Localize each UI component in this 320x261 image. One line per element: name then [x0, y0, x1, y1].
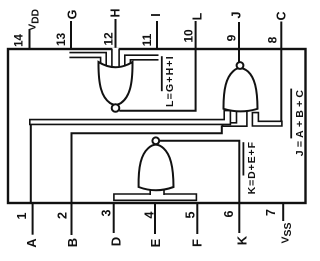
wire net B: pin2 up and across to gate J middle input: [72, 126, 222, 204]
svg-text:11: 11: [140, 33, 154, 46]
pin 11 lead: [156, 21, 158, 49]
svg-text:D: D: [109, 237, 124, 246]
NOR gate U3 (J = A+B+C), pointing up: [223, 68, 257, 111]
svg-text:6: 6: [222, 210, 236, 217]
svg-text:J=A+B+C: J=A+B+C: [294, 87, 306, 156]
svg-text:B: B: [65, 238, 80, 247]
pin 3 lead: [113, 203, 115, 233]
wire gate U1 output to pin 10: [119, 49, 195, 111]
svg-text:J: J: [230, 11, 244, 18]
gate U2 output bubble: [152, 137, 159, 144]
gate U1 output bubble: [112, 104, 120, 112]
gate U3 output bubble: [237, 62, 244, 69]
svg-text:12: 12: [102, 32, 116, 46]
pin 1 lead: [32, 203, 34, 235]
svg-text:I: I: [149, 13, 163, 16]
svg-text:H: H: [109, 8, 123, 17]
svg-text:10: 10: [182, 29, 196, 43]
package outline: [8, 49, 306, 203]
pin 8 lead: [280, 22, 282, 50]
svg-text:VDD: VDD: [27, 9, 42, 31]
overline for J expression: [290, 89, 292, 139]
pin 14 lead: [29, 30, 31, 49]
svg-text:C: C: [275, 11, 289, 20]
pin 6 lead: [238, 203, 240, 233]
svg-text:F: F: [190, 239, 205, 247]
pin 10 lead: [195, 21, 197, 49]
svg-text:K: K: [235, 235, 250, 245]
pin 9 lead and wire to gate J output: [238, 22, 240, 63]
svg-text:1: 1: [15, 212, 29, 219]
svg-text:14: 14: [14, 34, 26, 47]
pin 5 lead: [196, 203, 198, 234]
svg-text:A: A: [24, 238, 39, 248]
svg-text:E: E: [148, 238, 163, 247]
wire net A: pin1 up and across to gate J: [30, 122, 32, 203]
gate K input bus from pins 3,4,5: [114, 194, 196, 200]
svg-text:3: 3: [100, 209, 114, 216]
overline for L expression: [161, 56, 163, 91]
pin 12 lead: [115, 19, 117, 49]
svg-text:2: 2: [56, 212, 70, 219]
pin 2 lead: [71, 203, 73, 235]
pin 7 lead: [282, 203, 284, 221]
svg-text:VSS: VSS: [280, 222, 295, 243]
svg-text:8: 8: [266, 36, 280, 43]
gate L input stub from pin 13 (G): [69, 53, 106, 70]
svg-text:7: 7: [264, 209, 278, 216]
svg-text:L: L: [191, 12, 205, 20]
svg-text:13: 13: [54, 33, 68, 47]
svg-text:G: G: [66, 10, 80, 20]
svg-text:K=D+E+F: K=D+E+F: [246, 141, 258, 194]
wire net C: pin8 down and left to gate J right input: [280, 49, 282, 121]
wire gate U2 output to pin 6: [159, 141, 239, 203]
gate K middle input stub: [150, 184, 164, 200]
pin 4 lead: [154, 203, 156, 234]
overline for K expression: [242, 142, 244, 175]
svg-text:L=G+H+I: L=G+H+I: [164, 55, 176, 107]
NOR gate U1 (L = G+H+I), pointing down: [98, 62, 132, 105]
pin 13 lead: [70, 21, 72, 49]
gate L input stub from pin 11 (I): [125, 55, 159, 70]
svg-text:5: 5: [184, 211, 198, 218]
gate L input stub from pin 12 (H): [112, 48, 119, 72]
svg-text:9: 9: [225, 34, 239, 41]
NOR gate U2 (K = D+E+F), pointing up: [139, 145, 174, 191]
svg-text:4: 4: [143, 211, 157, 218]
